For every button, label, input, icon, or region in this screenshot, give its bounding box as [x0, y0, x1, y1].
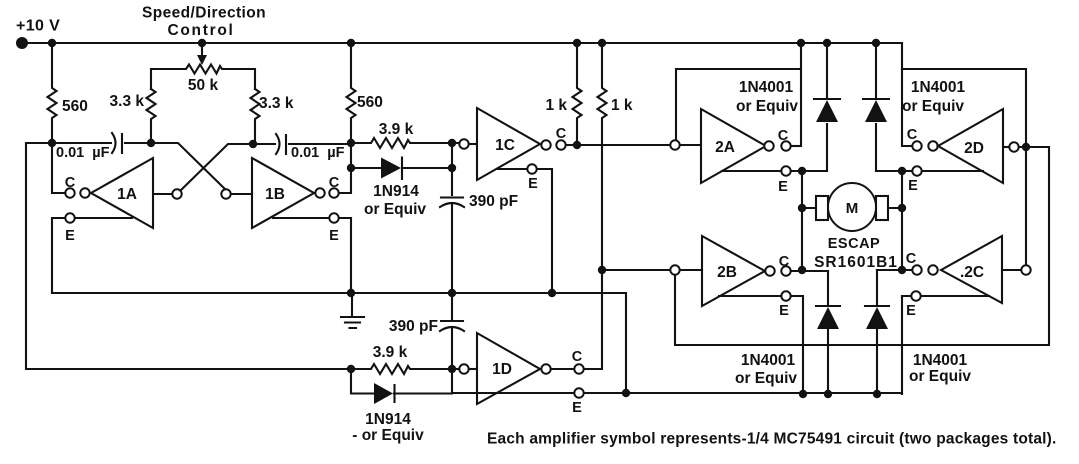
diode 1N4001 lower-left [816, 271, 840, 394]
pin 2D E bubble [912, 166, 921, 175]
node junction bus-1kb [598, 39, 606, 47]
wire 1C output to 2A [566, 144, 670, 146]
pin 2A C bubbles [764, 141, 773, 150]
wire 1A C stub [52, 143, 64, 193]
pin 1C C bubbles [541, 140, 550, 149]
pin 1A input bubble [172, 189, 181, 198]
resistor 560 left [48, 43, 57, 143]
capacitor 0.01uF right [253, 134, 351, 154]
svg-text:E: E [778, 179, 788, 195]
svg-text:.2C: .2C [960, 264, 984, 281]
node junction y144-3.3kb [249, 140, 257, 148]
node junction bus-diode2 [872, 39, 880, 47]
op-amp 2A [701, 109, 766, 183]
svg-text:2D: 2D [964, 140, 984, 157]
resistor 3.3k left [147, 89, 156, 143]
node junction 2B-C-motor [798, 266, 806, 274]
svg-text:C: C [329, 175, 340, 191]
svg-text:1N4001: 1N4001 [741, 352, 796, 369]
svg-text:or Equiv: or Equiv [909, 368, 971, 385]
wire 2B input stub [680, 269, 702, 271]
wire 1D C up to x602 [584, 270, 602, 369]
wire motor left vertical [801, 171, 803, 270]
diode 1N4001 upper-left [814, 43, 840, 171]
node junction ebus-1C [548, 289, 556, 297]
pin 1C input bubble [459, 139, 468, 148]
wire y143 left segment [26, 142, 111, 144]
node junction 2A-E-motor [798, 167, 806, 175]
svg-text:3.3 k: 3.3 k [259, 95, 294, 112]
svg-text:1B: 1B [265, 186, 285, 203]
node junction diode-top-right [448, 164, 456, 172]
capacitor 0.01uF left [112, 133, 151, 153]
wire 1C E stub [497, 169, 552, 293]
node junction ebus-diode3 [824, 390, 832, 398]
node junction ebus-cap [448, 289, 456, 297]
capacitor 390pF top [440, 198, 464, 294]
wire 2D E stub [876, 170, 983, 172]
motor M [802, 207, 902, 209]
wire 1B input stub [231, 193, 252, 195]
svg-text:SR1601B1: SR1601B1 [814, 254, 898, 271]
wire motor right vertical [901, 171, 903, 270]
diode 1N4001 upper-right [863, 43, 889, 171]
wire 2B C to diode [791, 270, 828, 272]
svg-text:- or Equiv: - or Equiv [352, 427, 424, 444]
pin 1B C bubbles [315, 188, 324, 197]
wire 2A input stub [680, 144, 701, 146]
svg-text:E: E [906, 303, 916, 319]
pin 1D input bubble [459, 364, 468, 373]
node junction ebus-2BE [799, 390, 807, 398]
wire 2D input to x1049 [1019, 146, 1049, 148]
wire emitter return bus y393 [452, 392, 902, 394]
svg-text:560: 560 [357, 94, 383, 111]
op-amp 2B [702, 236, 765, 306]
svg-text:C: C [778, 128, 789, 144]
wire 2D input [1003, 146, 1009, 148]
svg-text:1N4001: 1N4001 [911, 79, 966, 96]
svg-text:E: E [528, 176, 538, 192]
pin 1B E bubble [329, 213, 338, 222]
wire 2B E stub [719, 296, 803, 394]
wire right box top [902, 69, 1026, 142]
node junction 1k-1Cout [573, 141, 581, 149]
pin 2A E bubble [781, 166, 790, 175]
svg-text:1N914: 1N914 [365, 411, 411, 428]
wire 1C input stub [452, 142, 459, 144]
svg-text:390 pF: 390 pF [469, 193, 518, 210]
node junction bus-wiper [198, 39, 206, 47]
node junction bus-diode1 [823, 39, 831, 47]
diode 1N914 bottom [351, 369, 452, 402]
svg-text:3.9 k: 3.9 k [373, 344, 408, 361]
svg-text:1C: 1C [495, 137, 515, 154]
op-amp 2D [938, 109, 1003, 183]
svg-text:E: E [65, 228, 75, 244]
node junction motor-left [798, 204, 806, 212]
potentiometer 50k wiper arrow [201, 45, 203, 56]
node junction y369-left [347, 365, 355, 373]
pin 1D output bubble [541, 364, 550, 373]
svg-text:C: C [906, 251, 917, 267]
op-amp 2C [941, 236, 1002, 303]
node junction motor-right [898, 204, 906, 212]
svg-text:or Equiv: or Equiv [364, 201, 426, 218]
svg-text:0.01 µF: 0.01 µF [56, 145, 110, 161]
svg-text:C: C [556, 126, 567, 142]
node junction 3.9k-right [448, 139, 456, 147]
svg-text:or Equiv: or Equiv [902, 98, 964, 115]
wire 1B C stub [339, 143, 351, 193]
svg-text:E: E [329, 228, 339, 244]
node junction ebus-1B [347, 289, 355, 297]
resistor 1k left [573, 43, 582, 145]
pin 1D E bubble [574, 388, 583, 397]
node junction 1B-C-diode [347, 164, 355, 172]
pin 2D C bubbles [912, 141, 921, 150]
resistor 3.9k top [351, 138, 452, 148]
resistor 560 mid [347, 43, 356, 143]
pin 2B C bubbles [765, 266, 774, 275]
pin 2B input bubble [670, 265, 679, 274]
node +10V terminal [16, 37, 28, 49]
wire cross-couple right-to-1A [181, 144, 253, 190]
node junction 1k-2Bin [598, 266, 606, 274]
pin 2C C bubbles [912, 265, 921, 274]
svg-text:ESCAP: ESCAP [828, 236, 880, 252]
node junction 2D-E-motor [898, 167, 906, 175]
pin 1B input bubble [221, 189, 230, 198]
wire 2A feedback box [676, 43, 801, 146]
svg-text:C: C [572, 349, 583, 365]
pin 2D input bubble [1009, 142, 1018, 151]
svg-text:E: E [572, 400, 582, 416]
pin 1C E bubble [527, 164, 536, 173]
svg-text:2B: 2B [717, 264, 737, 281]
wire +10V top bus [22, 42, 902, 44]
svg-text:Speed/Direction: Speed/Direction [142, 5, 266, 22]
wire 2C E down to ebus [901, 296, 903, 394]
wire 2C output stub [1002, 269, 1021, 271]
wire 2C E stub [902, 295, 989, 297]
wire 2A E stub [722, 170, 827, 172]
svg-text:390 pF: 390 pF [389, 318, 438, 335]
wire 1D C link [551, 368, 574, 370]
wire 1D input stub [452, 368, 459, 370]
svg-text:Each amplifier symbol represen: Each amplifier symbol represents-1/4 MC7… [487, 431, 1057, 448]
svg-text:1N4001: 1N4001 [739, 79, 794, 96]
wire feedback left vertical [26, 143, 351, 369]
node junction bus-560a [48, 39, 56, 47]
node junction x1026-2D [1022, 143, 1030, 151]
wire 1A E stub [52, 218, 132, 293]
node junction y143-3.3ka [147, 139, 155, 147]
wire x1026 down to 2C output [1025, 147, 1027, 264]
wire vertical x452 upper [451, 143, 453, 195]
ground [341, 293, 364, 328]
svg-text:or Equiv: or Equiv [735, 370, 797, 387]
wire cross 2D-to-2B [675, 147, 1049, 345]
wire 2D C feed from bus [902, 43, 912, 146]
resistor 1k right [598, 43, 607, 270]
op-amp 1B [252, 158, 314, 228]
svg-text:C: C [779, 254, 790, 270]
wire 1B E stub [273, 218, 351, 293]
node junction y369-right [448, 365, 456, 373]
svg-text:M: M [846, 200, 859, 217]
wire 2A C stub [791, 145, 801, 147]
node junction bus-x801 [797, 39, 805, 47]
node junction bus-1ka [573, 39, 581, 47]
op-amp 1C [477, 108, 540, 180]
svg-text:1 k: 1 k [611, 97, 633, 114]
op-amp 1D [477, 333, 540, 404]
svg-text:560: 560 [62, 98, 88, 115]
svg-text:1N4001: 1N4001 [913, 352, 968, 369]
svg-text:E: E [779, 303, 789, 319]
capacitor 390pF bottom [440, 293, 464, 369]
pin 2C E bubble [911, 291, 920, 300]
node junction ebus-diode4 [873, 390, 881, 398]
svg-text:1 k: 1 k [545, 97, 567, 114]
svg-text:1N914: 1N914 [373, 183, 419, 200]
diode 1N914 top [351, 158, 452, 180]
svg-text:E: E [908, 178, 918, 194]
wire cross-couple left-to-1B [151, 143, 226, 190]
svg-text:Control: Control [168, 22, 235, 39]
wire 2B input feed [602, 269, 670, 271]
svg-text:1A: 1A [117, 186, 137, 203]
wire 1A input stub [154, 193, 172, 195]
svg-text:3.9 k: 3.9 k [379, 121, 414, 138]
svg-text:1D: 1D [492, 361, 512, 378]
svg-text:C: C [65, 175, 76, 191]
resistor 3.9k bottom [351, 364, 452, 374]
node junction ebus-x626 [622, 389, 630, 397]
op-amp 1A [91, 158, 153, 228]
svg-text:50 k: 50 k [188, 77, 219, 94]
potentiometer 50k body [151, 65, 255, 90]
pin 2C output bubble [1021, 265, 1030, 274]
svg-text:0.01 µF: 0.01 µF [291, 145, 345, 161]
pin 2A input bubble [670, 140, 679, 149]
node junction y143-560b [347, 139, 355, 147]
pin 1A E bubble [65, 213, 74, 222]
diode 1N4001 lower-right [865, 270, 889, 394]
node junction bus-560b [347, 39, 355, 47]
node junction 2C-C-motor [898, 266, 906, 274]
svg-text:3.3 k: 3.3 k [110, 93, 145, 110]
svg-text:C: C [907, 127, 918, 143]
pin 1D C bubble [574, 364, 583, 373]
pin 1A C bubbles [65, 188, 74, 197]
wire emitter bus y292 [52, 293, 626, 393]
svg-text:or Equiv: or Equiv [736, 98, 798, 115]
resistor 3.3k right [251, 89, 260, 144]
svg-text:2A: 2A [715, 139, 735, 156]
node junction y143-560a [48, 139, 56, 147]
wire 2C C row [877, 269, 912, 271]
svg-text:+10 V: +10 V [16, 18, 60, 35]
pin 2B E bubble [781, 291, 790, 300]
